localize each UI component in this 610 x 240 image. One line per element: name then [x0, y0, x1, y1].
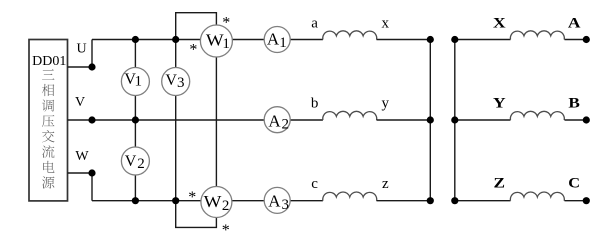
wire U-row line A segment — [92, 39, 200, 41]
wire U stub from box — [68, 66, 93, 68]
label chinese char tiao — [42, 99, 54, 111]
junction node y on left bus — [427, 116, 434, 123]
ammeter A3 — [264, 187, 290, 213]
inductor coil a-x — [323, 31, 377, 40]
wire W dropper — [91, 173, 93, 201]
wire coil y to bus — [377, 119, 431, 121]
voltmeter V3 — [162, 68, 190, 96]
svg-text:V: V — [125, 153, 137, 170]
wire U-row A1 to coil a — [290, 39, 323, 41]
wire W-row A3 to coil c — [290, 200, 323, 202]
wire V1 top lead — [134, 40, 136, 68]
junction node X on right bus — [451, 36, 458, 43]
ammeter A2 — [264, 107, 290, 133]
svg-text:z: z — [382, 176, 389, 192]
svg-text:A: A — [568, 16, 581, 32]
label V1 — [124, 71, 142, 89]
junction node U terminal — [88, 63, 95, 70]
wire X-row to terminal A — [565, 39, 587, 41]
svg-text:*: * — [188, 189, 196, 206]
svg-text:2: 2 — [222, 198, 230, 214]
wire V3 top lead — [175, 40, 177, 68]
label W2 — [204, 192, 230, 214]
svg-text:U: U — [76, 42, 86, 57]
wire Y-row to terminal B — [565, 119, 587, 121]
label V3 — [165, 72, 184, 91]
junction node V terminal — [88, 116, 95, 123]
ammeter A1 — [264, 27, 290, 53]
svg-text:W: W — [204, 192, 223, 211]
wire coil x to bus — [377, 39, 431, 41]
wire W1 voltage loop top — [176, 13, 217, 40]
svg-text:*: * — [189, 41, 197, 58]
label chinese char xiang — [42, 84, 54, 96]
label chinese char yuan — [42, 176, 54, 188]
wire Z-row lead — [455, 200, 511, 202]
svg-text:2: 2 — [281, 117, 289, 133]
wire X-row lead — [455, 39, 511, 41]
svg-text:x: x — [382, 15, 390, 31]
wire Z-row to terminal C — [565, 200, 587, 202]
label A1 — [267, 29, 287, 51]
inductor coil X-A — [510, 31, 564, 40]
svg-text:V: V — [165, 72, 177, 89]
svg-text:V: V — [75, 95, 85, 110]
wire V-row A2 to coil b — [290, 119, 323, 121]
inductor coil Y-B — [510, 111, 564, 120]
voltmeter V2 — [121, 147, 149, 175]
svg-text:A: A — [268, 192, 281, 211]
svg-text:*: * — [222, 222, 230, 236]
svg-text:3: 3 — [177, 75, 185, 91]
wire W2 voltage loop bottom — [176, 201, 217, 228]
terminal node B — [583, 116, 590, 123]
svg-text:c: c — [311, 176, 318, 192]
inductor coil Z-C — [510, 192, 564, 201]
svg-text:DD01: DD01 — [32, 54, 66, 69]
label chinese source name — [42, 69, 55, 188]
wire right star bus X-Y-Z — [454, 40, 456, 201]
label V2 — [125, 153, 145, 172]
wire V2 top lead — [134, 120, 136, 147]
wire W stub from box — [68, 172, 93, 174]
junction node W-row V2 tap — [132, 197, 139, 204]
svg-text:3: 3 — [282, 197, 290, 213]
wire W-row line C segment — [92, 200, 201, 202]
svg-text:1: 1 — [135, 73, 143, 89]
junction node U-row V1 tap — [132, 36, 139, 43]
junction node Z on right bus — [451, 197, 458, 204]
svg-text:b: b — [311, 96, 319, 112]
svg-text:a: a — [311, 15, 318, 31]
wattmeter W1 — [200, 25, 232, 57]
svg-text:*: * — [222, 15, 230, 32]
wire W-row W2 to A3 — [232, 200, 264, 202]
terminal node C — [583, 197, 590, 204]
label W1 — [206, 31, 230, 52]
label A3 — [268, 192, 289, 214]
label A2 — [268, 112, 289, 133]
wire U riser — [91, 40, 93, 68]
junction node U-row V3 tap — [172, 36, 179, 43]
junction node W terminal — [88, 169, 95, 176]
svg-text:X: X — [493, 16, 506, 32]
svg-text:B: B — [568, 96, 580, 112]
svg-text:Z: Z — [494, 176, 506, 192]
inductor coil c-z — [323, 192, 377, 201]
svg-text:1: 1 — [279, 35, 287, 51]
wire V stub from box — [68, 119, 93, 121]
label chinese char san — [42, 69, 54, 79]
wire V1 bottom lead — [134, 96, 136, 121]
power source box DD01 — [29, 40, 68, 201]
svg-text:y: y — [382, 96, 390, 112]
wire Y-row lead — [455, 119, 511, 121]
junction node V-row V1-V2 tap — [132, 116, 139, 123]
svg-text:1: 1 — [222, 36, 230, 52]
svg-text:A: A — [268, 112, 281, 131]
label chinese char ya — [42, 115, 54, 127]
svg-text:Y: Y — [493, 96, 506, 112]
label chinese char dian — [43, 161, 54, 173]
junction node z on left bus — [427, 197, 434, 204]
junction node W-row V3 tap — [172, 197, 179, 204]
junction node x on left bus — [427, 36, 434, 43]
inductor coil b-y — [323, 111, 377, 120]
wire V2 bottom lead — [134, 175, 136, 201]
svg-text:C: C — [568, 176, 580, 192]
wire left star bus x-y-z — [429, 40, 431, 201]
label chinese char jiao — [42, 130, 55, 142]
wire V3 bottom lead to W-row — [175, 96, 177, 201]
svg-text:W: W — [75, 149, 89, 164]
wire U-row W1 to A1 — [232, 39, 264, 41]
svg-text:2: 2 — [137, 156, 145, 172]
voltmeter V1 — [121, 68, 149, 96]
label chinese char liu — [42, 145, 54, 158]
wire W1 bottom to W2 top — [215, 57, 217, 187]
wire coil z to bus — [377, 200, 431, 202]
wattmeter W2 — [201, 187, 232, 218]
svg-text:A: A — [267, 29, 280, 48]
terminal node A — [583, 36, 590, 43]
wire V-row line B segment — [92, 119, 264, 121]
junction node Y on right bus — [451, 116, 458, 123]
